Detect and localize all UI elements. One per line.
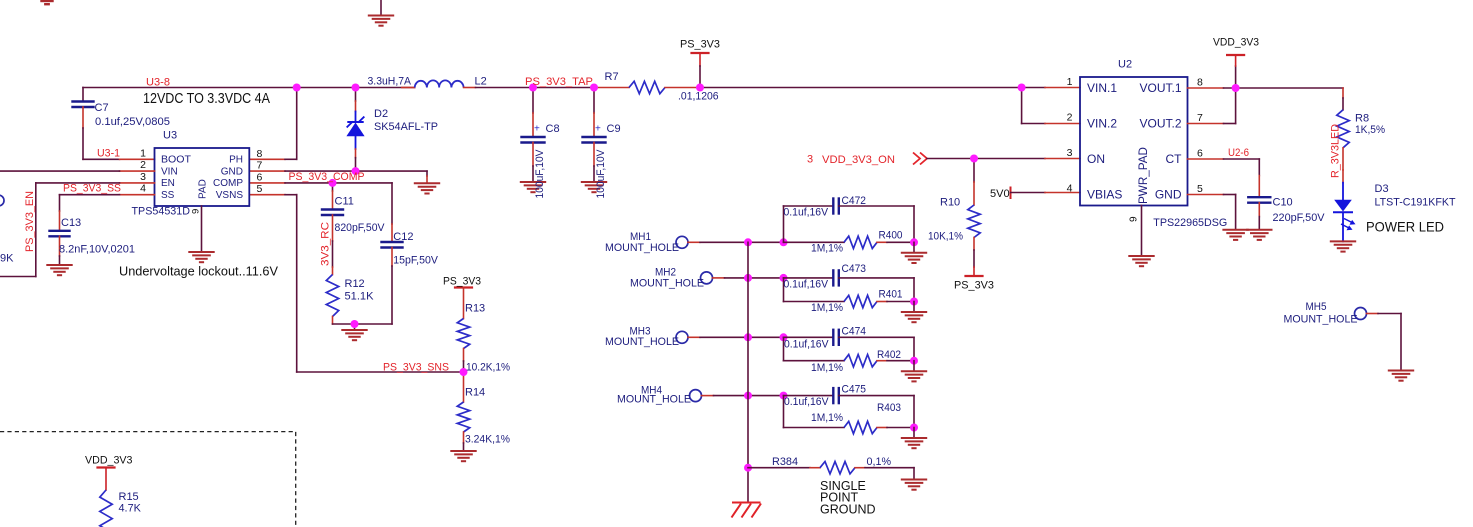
svg-text:R_3V3LED: R_3V3LED	[1330, 124, 1342, 178]
svg-text:VBIAS: VBIAS	[1087, 188, 1122, 202]
svg-text:PS_3V3: PS_3V3	[680, 39, 720, 51]
svg-text:VOUT.2: VOUT.2	[1139, 117, 1181, 131]
svg-text:ON: ON	[1087, 152, 1105, 166]
svg-text:U3-1: U3-1	[97, 148, 120, 160]
svg-text:MOUNT_HOLE: MOUNT_HOLE	[605, 336, 679, 348]
svg-text:BOOT: BOOT	[161, 155, 191, 166]
svg-text:820pF,50V: 820pF,50V	[335, 222, 386, 234]
svg-text:3: 3	[140, 171, 146, 183]
svg-text:EN: EN	[161, 178, 175, 189]
svg-text:100uF,10V: 100uF,10V	[534, 149, 546, 199]
svg-text:MH5: MH5	[1306, 301, 1327, 313]
svg-text:PS_3V3_EN: PS_3V3_EN	[24, 191, 36, 252]
svg-text:PWR_PAD: PWR_PAD	[1136, 147, 1150, 204]
svg-text:220pF,50V: 220pF,50V	[1273, 212, 1326, 224]
svg-text:4.7K: 4.7K	[119, 503, 142, 515]
svg-text:PS_3V3: PS_3V3	[954, 280, 994, 292]
svg-text:3.24K,1%: 3.24K,1%	[465, 434, 510, 446]
svg-text:1: 1	[1067, 76, 1073, 88]
svg-text:SS: SS	[161, 190, 175, 201]
svg-text:MOUNT_HOLE: MOUNT_HOLE	[605, 242, 679, 254]
svg-text:8: 8	[1197, 76, 1203, 88]
svg-text:8: 8	[257, 148, 263, 160]
svg-text:U2: U2	[1118, 59, 1132, 71]
svg-text:100uF,10V: 100uF,10V	[595, 149, 607, 199]
svg-text:TPS54531D: TPS54531D	[132, 206, 191, 218]
svg-text:9K: 9K	[0, 253, 14, 265]
svg-text:10K,1%: 10K,1%	[928, 231, 963, 243]
svg-text:D3: D3	[1375, 183, 1389, 195]
svg-text:R403: R403	[877, 402, 901, 414]
svg-text:C9: C9	[607, 123, 621, 135]
svg-text:9: 9	[1129, 216, 1140, 222]
svg-text:VIN: VIN	[161, 166, 178, 177]
svg-text:1M,1%: 1M,1%	[811, 243, 843, 255]
svg-text:0.1uf,16V: 0.1uf,16V	[784, 396, 829, 408]
svg-text:VDD_3V3: VDD_3V3	[1213, 37, 1259, 49]
svg-text:6: 6	[1197, 147, 1203, 159]
svg-text:+: +	[534, 124, 540, 135]
svg-text:5: 5	[1197, 183, 1203, 195]
svg-text:GROUND: GROUND	[820, 503, 876, 517]
svg-text:R14: R14	[465, 387, 485, 399]
svg-text:TPS22965DSG: TPS22965DSG	[1153, 217, 1227, 229]
svg-text:0.1uf,16V: 0.1uf,16V	[784, 207, 829, 219]
svg-text:10.2K,1%: 10.2K,1%	[466, 362, 510, 374]
svg-text:POWER LED: POWER LED	[1366, 219, 1444, 235]
svg-text:9: 9	[191, 209, 202, 214]
svg-text:C7: C7	[95, 102, 109, 114]
svg-text:R400: R400	[879, 230, 903, 242]
svg-text:R8: R8	[1355, 113, 1369, 125]
svg-text:U2-6: U2-6	[1228, 147, 1249, 159]
svg-text:6: 6	[257, 171, 263, 183]
svg-text:MOUNT_HOLE: MOUNT_HOLE	[630, 278, 704, 290]
svg-text:1: 1	[140, 147, 146, 159]
svg-text:0.1uf,16V: 0.1uf,16V	[784, 339, 829, 351]
svg-text:4: 4	[1067, 183, 1073, 195]
svg-text:3: 3	[807, 154, 813, 166]
svg-text:C12: C12	[393, 231, 413, 243]
svg-text:PS_3V3_COMP: PS_3V3_COMP	[289, 171, 365, 183]
svg-text:R401: R401	[879, 289, 903, 301]
svg-text:R12: R12	[345, 278, 365, 290]
svg-text:5: 5	[257, 183, 263, 195]
svg-text:4: 4	[140, 183, 146, 195]
svg-text:VIN.2: VIN.2	[1087, 117, 1117, 131]
svg-text:2: 2	[1067, 112, 1073, 124]
svg-text:1M,1%: 1M,1%	[811, 412, 843, 424]
svg-text:R7: R7	[605, 71, 619, 83]
svg-text:LTST-C191KFKT: LTST-C191KFKT	[1375, 197, 1456, 209]
svg-text:0,1%: 0,1%	[867, 456, 892, 468]
svg-text:51.1K: 51.1K	[345, 291, 375, 303]
svg-text:PS_3V3_SNS: PS_3V3_SNS	[383, 362, 449, 374]
svg-text:3.3uH,7A: 3.3uH,7A	[368, 76, 412, 88]
svg-text:R13: R13	[465, 303, 485, 315]
svg-text:CT: CT	[1166, 152, 1183, 166]
svg-text:2: 2	[140, 159, 146, 171]
svg-text:PS_3V3_SS: PS_3V3_SS	[63, 183, 121, 195]
svg-text:C11: C11	[335, 196, 354, 208]
svg-text:0.1uf,25V,0805: 0.1uf,25V,0805	[95, 116, 170, 128]
svg-text:GND: GND	[1155, 188, 1182, 202]
svg-text:C472: C472	[842, 195, 867, 207]
svg-text:PS_3V3: PS_3V3	[443, 276, 481, 288]
svg-text:R10: R10	[940, 197, 960, 209]
svg-text:7: 7	[257, 160, 263, 172]
svg-text:3V3_RC: 3V3_RC	[320, 222, 332, 266]
svg-text:0.1uf,16V: 0.1uf,16V	[784, 279, 829, 291]
svg-text:PS_3V3_TAP: PS_3V3_TAP	[525, 76, 593, 88]
svg-text:U3: U3	[163, 130, 177, 142]
svg-text:VIN.1: VIN.1	[1087, 81, 1117, 95]
svg-text:R15: R15	[119, 491, 139, 503]
svg-text:5V0: 5V0	[990, 188, 1010, 200]
svg-text:R384: R384	[772, 456, 798, 468]
svg-text:C474: C474	[842, 326, 867, 338]
svg-text:Undervoltage lockout..11.6V: Undervoltage lockout..11.6V	[119, 265, 279, 279]
svg-text:7: 7	[1197, 112, 1203, 124]
svg-text:15pF,50V: 15pF,50V	[393, 255, 438, 267]
svg-text:.01,1206: .01,1206	[678, 91, 719, 103]
svg-text:8.2nF,10V,0201: 8.2nF,10V,0201	[59, 244, 135, 256]
svg-text:MOUNT_HOLE: MOUNT_HOLE	[1284, 314, 1358, 326]
svg-text:VDD_3V3: VDD_3V3	[85, 455, 133, 467]
svg-text:SK54AFL-TP: SK54AFL-TP	[374, 121, 438, 133]
svg-text:MOUNT_HOLE: MOUNT_HOLE	[617, 394, 691, 406]
svg-text:L2: L2	[475, 76, 487, 88]
svg-text:U3-8: U3-8	[146, 77, 170, 89]
svg-text:COMP: COMP	[213, 178, 243, 189]
svg-text:3: 3	[1067, 147, 1073, 159]
svg-text:VOUT.1: VOUT.1	[1139, 81, 1181, 95]
svg-text:PH: PH	[229, 155, 243, 166]
svg-text:C13: C13	[61, 217, 81, 229]
svg-text:C10: C10	[1273, 196, 1293, 208]
svg-text:1M,1%: 1M,1%	[811, 362, 843, 374]
svg-text:12VDC TO 3.3VDC 4A: 12VDC TO 3.3VDC 4A	[143, 90, 270, 107]
svg-text:D2: D2	[374, 108, 388, 120]
svg-text:C8: C8	[546, 123, 560, 135]
svg-text:+: +	[595, 124, 601, 135]
svg-text:GND: GND	[221, 166, 243, 177]
svg-text:R402: R402	[877, 349, 901, 361]
svg-text:1M,1%: 1M,1%	[811, 302, 843, 314]
svg-text:C473: C473	[842, 263, 867, 275]
svg-text:VSNS: VSNS	[216, 190, 244, 201]
svg-text:VDD_3V3_ON: VDD_3V3_ON	[822, 154, 895, 166]
svg-text:PAD: PAD	[198, 179, 209, 199]
svg-text:1K,5%: 1K,5%	[1355, 124, 1385, 136]
svg-text:C475: C475	[842, 384, 867, 396]
